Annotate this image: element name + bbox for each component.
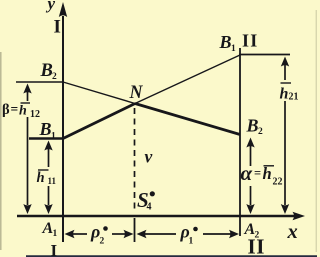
svg-text:1: 1 [189,237,194,247]
svg-text:B: B [40,61,53,81]
svg-text:12: 12 [30,109,40,120]
svg-text:h: h [263,164,272,183]
y-axis (line I) [62,16,64,242]
dashed line from N down to S4* [134,108,136,213]
svg-text:B: B [219,32,232,52]
svg-text:21: 21 [289,92,299,103]
dimension beta=h12 lower arrow [27,117,29,205]
svg-text:I: I [51,241,58,257]
svg-text:h: h [19,104,27,119]
bottom page-edge line [26,255,317,257]
dimension alpha=h22 lower arrow [250,186,252,205]
thick line B1left to N [63,104,135,139]
tick below axis at S4* [134,218,136,242]
right page-edge shadow [315,10,317,252]
svg-text:=: = [11,102,19,117]
svg-text:x: x [287,221,298,243]
dimension rho1* left arrow [143,233,176,235]
svg-text:2: 2 [100,237,105,247]
dimension rho2* right arrow [112,233,127,235]
svg-text:II: II [248,235,266,257]
svg-text:4: 4 [147,202,152,213]
dimension alpha=h22 upper arrow [250,146,252,166]
svg-text:h: h [37,170,45,186]
dimension h11 lower arrow [48,186,50,205]
svg-text:22: 22 [273,177,283,188]
tick at B1 left (thick) [29,137,63,140]
dimension rho2* left arrow [71,233,87,235]
svg-text:=: = [254,166,261,180]
thick line N to B2right [135,104,240,135]
dimension h21 upper arrow [284,64,286,80]
svg-text:11: 11 [48,176,57,186]
svg-text:β: β [2,102,10,118]
svg-text:h: h [280,86,289,103]
svg-text:B: B [39,119,52,139]
svg-text:B: B [246,116,259,136]
svg-text:α: α [241,161,253,185]
svg-text:N: N [129,82,144,103]
y-axis arrowhead [59,2,67,17]
svg-text:II: II [242,31,258,51]
svg-text:I: I [54,17,61,38]
vertical line II [239,48,241,236]
svg-text:1: 1 [231,44,236,54]
thin line B2left to N [63,82,135,104]
tick at B2 left [16,81,63,83]
horizontal line at B1 right [239,54,290,56]
dimension h21 lower arrow [284,101,286,205]
left page-edge shadow [0,52,2,250]
svg-text:y: y [46,0,56,13]
svg-text:2: 2 [258,127,263,137]
svg-text:1: 1 [51,132,56,142]
dimension h11 upper arrow [48,148,50,167]
thin line N to B1right [135,55,240,104]
dimension rho1* right arrow [203,233,232,235]
svg-text:ν: ν [145,147,153,167]
svg-text:2: 2 [52,72,57,82]
svg-text:1: 1 [53,229,58,239]
x-axis arrowhead [293,212,306,220]
dimension beta=h12 upper arrow [27,91,29,101]
x-axis [17,215,294,218]
